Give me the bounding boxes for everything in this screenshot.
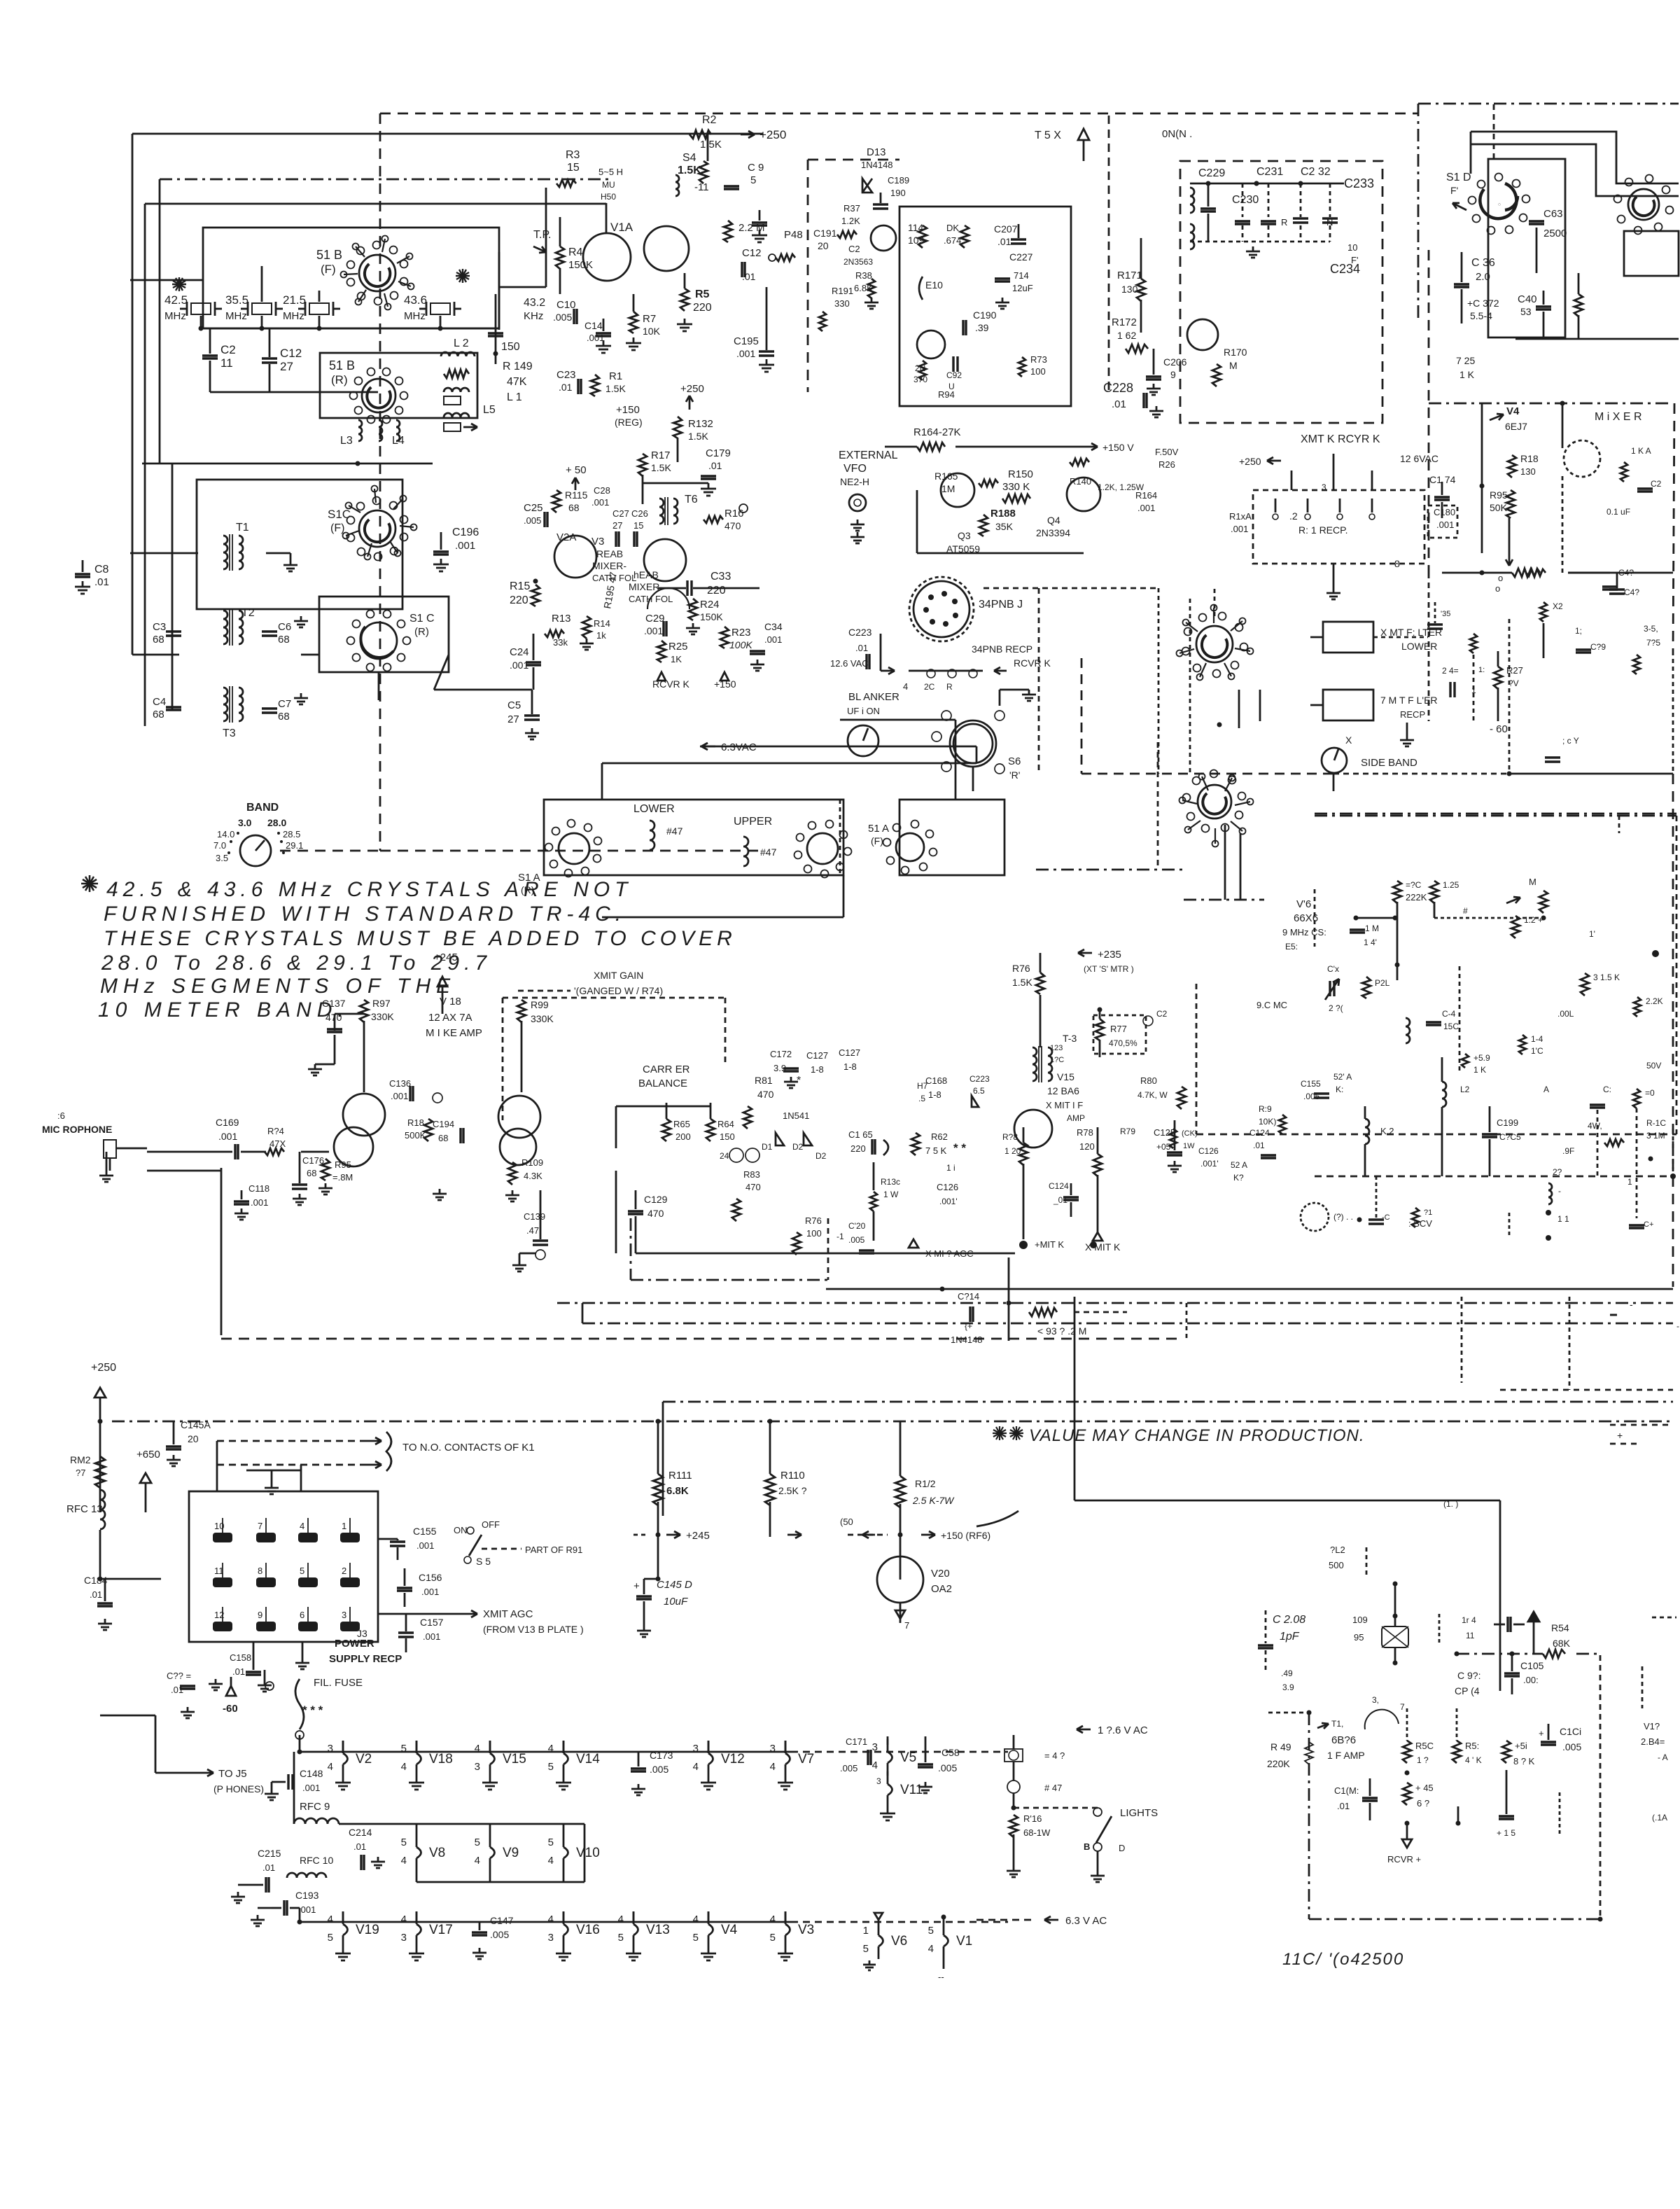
svg-text:C199: C199 [1497,1117,1518,1128]
svg-text:+250: +250 [1239,456,1261,467]
svg-text:C?14: C?14 [958,1291,979,1302]
svg-text:470: 470 [745,1182,761,1192]
svg-text:C 36: C 36 [1471,257,1495,269]
svg-text:4: 4 [770,1914,776,1925]
svg-text:R164: R164 [1135,490,1157,501]
svg-text:4: 4 [548,1914,554,1925]
svg-text:R95: R95 [1490,489,1508,501]
svg-text:C14: C14 [584,320,603,331]
svg-text:34PNB J: 34PNB J [979,599,1023,611]
svg-text:C196: C196 [452,527,479,538]
svg-text:C129: C129 [644,1194,668,1205]
svg-text:1 W: 1 W [883,1190,899,1199]
svg-text:C28: C28 [594,485,610,496]
svg-text:C118: C118 [248,1183,269,1194]
svg-text:H50: H50 [601,192,616,202]
svg-text:4: 4 [548,1743,554,1755]
svg-text:Q4: Q4 [1047,515,1060,526]
svg-text:R64: R64 [717,1119,734,1129]
svg-text:4: 4 [548,1855,554,1867]
svg-text:C105: C105 [1520,1660,1544,1671]
svg-text:68: 68 [278,711,290,723]
svg-text:C:: C: [1603,1085,1611,1094]
svg-text:(REG): (REG) [615,417,643,428]
svg-text:130: 130 [1520,466,1536,477]
svg-text:S1 C: S1 C [409,613,435,625]
svg-text:1 1: 1 1 [1557,1214,1569,1224]
svg-text:C158: C158 [230,1652,251,1663]
svg-text:5: 5 [770,1932,776,1944]
svg-text:123: 123 [1050,1044,1063,1052]
svg-text:7 25: 7 25 [1456,355,1475,366]
svg-text:1'C: 1'C [1531,1046,1543,1056]
svg-text:3: 3 [475,1761,480,1773]
svg-text:C?9: C?9 [1590,642,1606,652]
svg-text:12.6 VAC: 12.6 VAC [830,658,869,669]
svg-text:35.5: 35.5 [225,293,248,307]
svg-text:1.25: 1.25 [1443,880,1459,890]
svg-text:R62: R62 [931,1131,948,1142]
svg-text:68: 68 [307,1168,316,1178]
svg-text:5: 5 [475,1837,480,1848]
svg-text:.001: .001 [1231,524,1248,534]
svg-text:9: 9 [1170,369,1176,380]
svg-text:15: 15 [633,520,643,531]
svg-text:R171: R171 [1117,270,1142,281]
svg-text:T-3: T-3 [1063,1033,1077,1044]
svg-text:C127: C127 [806,1050,828,1061]
svg-text:V5: V5 [900,1750,916,1765]
svg-text:-: - [1558,1186,1561,1196]
svg-text:R38: R38 [855,270,872,281]
svg-text:2.0: 2.0 [1476,271,1490,283]
svg-text:D13: D13 [867,146,886,158]
svg-text:10: 10 [1347,242,1357,253]
svg-text:+MIT K: +MIT K [1035,1239,1064,1250]
svg-text:R: R [1281,217,1287,228]
svg-text:R5C: R5C [1415,1741,1434,1751]
svg-text:-C: -C [1382,1213,1390,1222]
svg-text:MHz: MHz [225,310,247,322]
svg-text:1:: 1: [1478,666,1485,674]
svg-text:SUPPLY RECP: SUPPLY RECP [329,1653,402,1665]
svg-text:R14: R14 [594,618,610,629]
svg-text:.01: .01 [855,643,868,653]
svg-text:PART OF R91: PART OF R91 [525,1545,582,1555]
svg-text:S4: S4 [682,152,696,164]
svg-text:R37: R37 [843,203,860,214]
svg-text:R99: R99 [531,999,549,1010]
svg-text:X MIT K: X MIT K [1085,1241,1121,1253]
svg-text:0N(N .: 0N(N . [1162,128,1192,140]
svg-text:NE2-H: NE2-H [840,476,869,487]
svg-text:6.5: 6.5 [973,1086,985,1096]
svg-text:E10: E10 [925,279,943,291]
svg-text:4 ' K: 4 ' K [1465,1755,1482,1765]
svg-text:150: 150 [501,341,520,353]
svg-text:R5: R5 [695,288,710,300]
svg-text:RFC 13: RFC 13 [66,1503,103,1515]
svg-text:.01: .01 [1253,1141,1265,1150]
svg-text:15: 15 [567,162,580,174]
svg-text:R73: R73 [1030,354,1047,365]
svg-text:21.5: 21.5 [283,293,306,307]
svg-text:R76: R76 [1012,963,1030,974]
svg-text:2N3394: 2N3394 [1036,527,1070,538]
svg-text:C125: C125 [1154,1127,1175,1138]
svg-text:68: 68 [153,709,164,720]
svg-text:C157: C157 [420,1617,444,1628]
svg-text:6B?6: 6B?6 [1331,1734,1356,1746]
svg-text:UF i ON: UF i ON [847,706,880,716]
svg-text:.001: .001 [764,634,782,645]
svg-text:3.9: 3.9 [1282,1682,1294,1692]
svg-text:C2: C2 [848,244,860,254]
svg-text:{+: {+ [965,1321,972,1331]
svg-text:R188: R188 [990,508,1016,520]
svg-text:S1C: S1C [328,508,351,521]
svg-text:8 ? K: 8 ? K [1513,1756,1535,1766]
svg-text:POWER: POWER [335,1638,374,1650]
svg-text:LOWER: LOWER [633,803,675,815]
svg-text:C4?: C4? [1624,587,1639,597]
svg-text:V14: V14 [576,1752,600,1766]
svg-text:4: 4 [401,1855,407,1867]
svg-text:.49: .49 [1281,1668,1293,1678]
svg-text:3: 3 [770,1743,776,1755]
svg-text:C2 32: C2 32 [1301,166,1331,178]
svg-text:C63: C63 [1543,208,1563,220]
svg-text:C3: C3 [153,621,166,633]
svg-text:V18: V18 [429,1752,453,1766]
svg-text:X MI ? AGC: X MI ? AGC [925,1248,974,1259]
svg-text:47X: 47X [269,1138,286,1149]
svg-text:1 62: 1 62 [1117,330,1136,341]
svg-text:1 ?: 1 ? [1417,1755,1429,1765]
svg-text:C171: C171 [846,1736,867,1747]
svg-text:3.0: 3.0 [238,817,252,828]
svg-text:6.3 V AC: 6.3 V AC [1065,1915,1107,1927]
svg-text:T6: T6 [685,494,698,506]
svg-text:1 i: 1 i [946,1163,955,1173]
svg-text:.001: .001 [644,625,663,636]
svg-text:R164-27K: R164-27K [913,426,961,438]
svg-text:RM2: RM2 [70,1454,91,1465]
svg-text:V11: V11 [900,1783,923,1797]
svg-text:C139: C139 [524,1211,545,1222]
svg-text:(F): (F) [871,835,883,846]
svg-text:- A: - A [1658,1752,1668,1762]
svg-text:1K: 1K [671,654,682,664]
svg-text:C227: C227 [1009,251,1033,263]
svg-text:.005: .005 [650,1764,668,1775]
svg-text:6EJ7: 6EJ7 [1505,421,1527,432]
svg-text:MHz: MHz [404,310,426,322]
svg-text:11: 11 [1466,1631,1475,1640]
svg-text:190: 190 [890,188,906,198]
svg-text:.001': .001' [1200,1159,1219,1169]
svg-text:-1: -1 [836,1232,844,1241]
svg-text:C1 65: C1 65 [848,1129,873,1140]
svg-text:C148: C148 [300,1768,323,1779]
svg-text:TO N.O. CONTACTS OF K1: TO N.O. CONTACTS OF K1 [402,1442,535,1454]
svg-text:52 A: 52 A [1231,1160,1247,1170]
svg-text:1 K: 1 K [1473,1065,1486,1075]
svg-text:9.C MC: 9.C MC [1256,1000,1287,1010]
svg-text:330: 330 [834,298,850,309]
svg-text:C126: C126 [1198,1146,1219,1156]
svg-text:R25: R25 [668,641,688,653]
svg-text:C1(M:: C1(M: [1334,1785,1359,1796]
svg-text:100K: 100K [729,639,752,650]
svg-text:C4: C4 [153,696,166,708]
svg-text:5: 5 [548,1837,554,1848]
svg-text:K?: K? [1233,1173,1244,1183]
svg-text:24: 24 [720,1151,729,1161]
svg-text:C233: C233 [1344,176,1374,190]
svg-text:9: 9 [258,1610,262,1620]
svg-text:C169: C169 [216,1117,239,1128]
svg-text:D1: D1 [762,1142,773,1152]
svg-text:4: 4 [618,1914,624,1925]
svg-text:D: D [1119,1843,1125,1853]
svg-text:C147: C147 [490,1915,514,1926]
svg-text:C180: C180 [1434,507,1455,517]
svg-text:+5.9: +5.9 [1473,1053,1490,1063]
svg-text:=?C: =?C [1406,880,1422,890]
svg-text:5: 5 [863,1943,869,1955]
svg-text:R170: R170 [1224,347,1247,358]
svg-text:+C 372: +C 372 [1467,298,1499,309]
svg-text:DK: DK [946,223,959,233]
svg-text:2: 2 [342,1566,346,1576]
svg-text:68: 68 [153,634,164,646]
svg-text:L2: L2 [1460,1085,1470,1094]
svg-text:.01: .01 [708,460,722,471]
svg-text:R15: R15 [510,580,530,592]
svg-text:2 ?(: 2 ?( [1329,1003,1343,1013]
svg-text:UPPER: UPPER [734,816,772,828]
svg-text:(XT 'S' MTR ): (XT 'S' MTR ) [1084,964,1134,974]
svg-text:3-5,: 3-5, [1644,624,1658,634]
svg-text:.01: .01 [232,1666,245,1677]
svg-text:+250: +250 [680,383,704,395]
svg-text:K:: K: [1336,1085,1343,1094]
svg-text:D2: D2 [792,1142,804,1152]
svg-text:- 60: - 60 [1490,723,1508,735]
svg-text:X MIT I F: X MIT I F [1046,1100,1083,1110]
svg-text:C124: C124 [1249,1128,1270,1138]
svg-text:-11: -11 [694,181,709,193]
svg-text:R111: R111 [668,1470,692,1482]
svg-text:2C: 2C [924,682,935,692]
svg-text:27: 27 [280,360,293,373]
svg-text:SIDE BAND: SIDE BAND [1361,757,1417,769]
svg-text:2.2K: 2.2K [1646,996,1663,1006]
svg-text:4: 4 [300,1521,304,1531]
svg-text:.005: .005 [1562,1741,1581,1752]
svg-text:10K: 10K [643,326,661,337]
svg-text:4: 4 [401,1761,407,1773]
svg-text:C12: C12 [280,347,302,360]
svg-text:C234: C234 [1330,262,1360,276]
svg-text:220: 220 [707,585,726,597]
svg-text:C229: C229 [1198,167,1225,179]
svg-text:.001: .001 [298,1904,316,1915]
svg-text:RECP: RECP [1400,709,1425,720]
svg-text:470: 470 [757,1089,774,1100]
svg-text:C194: C194 [433,1119,454,1129]
svg-text:MHz: MHz [164,310,186,322]
svg-text:C40: C40 [1518,293,1537,305]
svg-text:FURNISHED WITH STANDARD TR-4C.: FURNISHED WITH STANDARD TR-4C. [104,903,626,926]
svg-text:L 1: L 1 [507,391,522,403]
svg-text:C207: C207 [994,223,1018,235]
svg-text:.005: .005 [840,1763,857,1774]
svg-text:R5:: R5: [1465,1741,1479,1751]
svg-text:C 2.08: C 2.08 [1273,1614,1305,1626]
svg-text:1: 1 [342,1521,346,1531]
svg-text:R1/2: R1/2 [915,1478,936,1489]
svg-text:29.1: 29.1 [286,840,303,851]
svg-text:E5:: E5: [1285,942,1298,952]
svg-text:LOWER: LOWER [1401,641,1437,652]
svg-text:2500: 2500 [1543,228,1567,239]
svg-text:4: 4 [872,1759,878,1771]
svg-text:+245: +245 [434,952,458,963]
svg-text:C214: C214 [349,1827,372,1838]
svg-text:MHz SEGMENTS OF THE: MHz SEGMENTS OF THE [100,975,456,998]
svg-text:1.5K: 1.5K [688,431,708,442]
svg-text:C2: C2 [220,343,236,356]
svg-text:+: + [633,1580,640,1592]
svg-text:OFF: OFF [482,1519,500,1530]
svg-text:V4: V4 [721,1923,738,1937]
svg-text:Q3: Q3 [958,530,971,541]
svg-text:L5: L5 [483,404,496,416]
svg-text:C12: C12 [742,247,762,259]
svg-text:C+: C+ [1644,1220,1653,1229]
svg-text:C'20: C'20 [848,1221,866,1231]
svg-text:C33: C33 [710,571,731,583]
svg-text:2.5 K-7W: 2.5 K-7W [912,1495,955,1506]
svg-text:P2L: P2L [1375,978,1390,988]
svg-text:.01: .01 [742,271,756,282]
svg-text:470,5%: 470,5% [1109,1038,1137,1048]
svg-text:R140: R140 [1070,476,1091,487]
svg-text:#: # [1463,906,1468,916]
svg-text:T1: T1 [236,522,249,534]
svg-text:V16: V16 [576,1923,600,1937]
svg-text:+150 (RF6): +150 (RF6) [941,1530,990,1541]
svg-text:1 M: 1 M [1365,924,1379,933]
svg-text:4: 4 [928,1943,934,1955]
svg-text:MHz: MHz [283,310,304,322]
svg-text:.005: .005 [848,1235,865,1245]
svg-text:1 4': 1 4' [1364,938,1377,947]
svg-text:+ 50: + 50 [566,464,587,476]
svg-text:R1: R1 [609,370,622,382]
svg-text:1 ?.6 V AC: 1 ?.6 V AC [1098,1724,1148,1736]
svg-text:51 B: 51 B [329,358,355,372]
svg-text:R115: R115 [565,489,588,501]
svg-text:6 ?: 6 ? [1417,1798,1429,1809]
svg-text:1.5K: 1.5K [605,383,626,394]
svg-text:.001: .001 [1137,503,1155,513]
svg-text:V19: V19 [356,1923,379,1937]
svg-text:MIC ROPHONE: MIC ROPHONE [42,1124,112,1135]
svg-text:R54: R54 [1551,1622,1569,1633]
svg-text:+235: +235 [1098,949,1121,961]
svg-text:68: 68 [438,1133,448,1143]
svg-text:C206: C206 [1163,356,1187,368]
svg-text:KHz: KHz [524,310,543,322]
svg-text:12 BA6: 12 BA6 [1047,1085,1079,1096]
svg-text:330K: 330K [371,1011,394,1022]
svg-text:S 5: S 5 [476,1556,491,1567]
svg-text:C173: C173 [650,1750,673,1761]
svg-text:5: 5 [750,174,756,186]
svg-text:1?C: 1?C [1050,1056,1064,1064]
svg-text:(F): (F) [330,522,344,534]
svg-text:V2: V2 [356,1752,372,1766]
svg-text:1;: 1; [1575,626,1582,636]
svg-text:RFC 9: RFC 9 [300,1801,330,1813]
svg-text:4: 4 [693,1761,699,1773]
svg-text:R13c: R13c [881,1177,900,1187]
svg-text:RFC 10: RFC 10 [300,1855,333,1866]
svg-text:1pF: 1pF [1280,1631,1300,1643]
svg-text:1-8: 1-8 [811,1064,824,1075]
svg-text:9 MHz CS:: 9 MHz CS: [1282,927,1326,938]
svg-text:8: 8 [258,1566,262,1576]
svg-text:V15: V15 [503,1752,526,1766]
svg-text:C193: C193 [295,1890,319,1901]
svg-text:C191: C191 [813,228,837,239]
svg-text:V4: V4 [1506,405,1520,417]
svg-text:X: X [1345,734,1352,746]
svg-text:(R): (R) [331,373,348,386]
svg-text:V20: V20 [931,1568,950,1580]
svg-text:R132: R132 [688,418,713,430]
svg-text:5: 5 [401,1743,407,1755]
svg-text:28.0: 28.0 [267,817,286,828]
svg-text:V7: V7 [798,1752,814,1766]
svg-text:VALUE MAY CHANGE IN PRODUCT: VALUE MAY CHANGE IN PRODUCTION. [1029,1426,1365,1445]
svg-text:3: 3 [872,1741,878,1753]
svg-text:20: 20 [188,1433,199,1444]
svg-text:S1 D: S1 D [1446,172,1471,183]
svg-text:(50: (50 [840,1517,853,1527]
svg-text:# 47: # 47 [1044,1783,1062,1793]
svg-text:.2: .2 [1289,510,1298,522]
svg-text:< 93 ? .2 M: < 93 ? .2 M [1037,1325,1086,1337]
svg-text:V1A: V1A [610,221,633,234]
svg-text:.47: .47 [526,1225,539,1236]
svg-text:V2A: V2A [556,531,576,543]
svg-text:XMT K RCYR K: XMT K RCYR K [1301,433,1380,445]
svg-text:.001: .001 [421,1587,439,1597]
svg-text:S6: S6 [1008,755,1021,767]
svg-text:4: 4 [328,1914,333,1925]
svg-text:.005: .005 [490,1929,509,1940]
svg-text:*: * [797,1075,801,1087]
svg-text:R80: R80 [1140,1075,1157,1086]
svg-text:o: o [1498,573,1503,583]
svg-text:14.0: 14.0 [217,829,234,839]
svg-text:.001: .001 [423,1631,440,1642]
svg-text:LIGHTS: LIGHTS [1120,1807,1158,1819]
